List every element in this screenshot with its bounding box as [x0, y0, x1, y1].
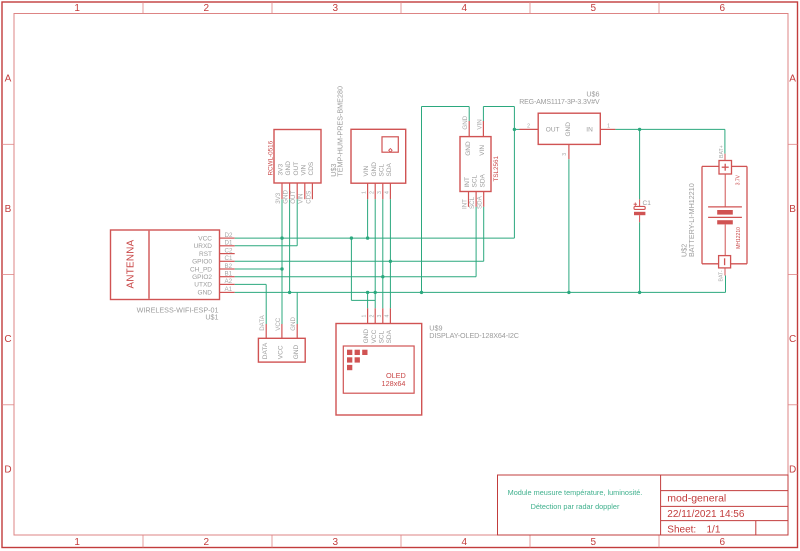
U$2 value labels — [735, 174, 742, 248]
svg-text:URXD: URXD — [194, 243, 213, 250]
U$1 pin stubs — [220, 238, 235, 292]
svg-text:3V3: 3V3 — [275, 192, 282, 204]
svg-text:A: A — [789, 74, 796, 85]
svg-text:SCL: SCL — [378, 163, 385, 176]
svg-text:GND: GND — [371, 162, 378, 177]
wire 3.3V drop to OLED VCC — [351, 238, 375, 300]
svg-text:GND: GND — [290, 317, 297, 331]
U$2 pin stubs — [724, 154, 726, 276]
svg-text:DISPLAY-OLED-128X64-I2C: DISPLAY-OLED-128X64-I2C — [429, 331, 519, 340]
svg-text:B1: B1 — [225, 271, 233, 278]
svg-text:3: 3 — [333, 537, 339, 548]
wire RCWL GND vertical — [289, 199, 291, 292]
svg-text:INT: INT — [464, 177, 471, 188]
svg-text:3V3: 3V3 — [278, 164, 285, 176]
svg-text:2: 2 — [204, 3, 210, 14]
capacitor C1 — [634, 199, 645, 222]
svg-text:VIN: VIN — [479, 145, 486, 156]
svg-text:1: 1 — [607, 123, 610, 129]
U$9 pin stubs — [368, 308, 391, 323]
svg-text:GND: GND — [285, 161, 292, 176]
wire RCWL 3V3 vertical — [281, 199, 283, 324]
U$2 cell plates — [708, 174, 742, 256]
C1 plus mark — [634, 203, 637, 206]
svg-text:GND: GND — [283, 190, 290, 204]
wire SDA vertical — [389, 199, 391, 308]
U$2 minus terminal — [719, 256, 731, 268]
3-pin sensor pin stubs — [266, 324, 297, 338]
svg-text:A2: A2 — [225, 278, 233, 285]
svg-text:1: 1 — [74, 3, 80, 14]
svg-text:D: D — [789, 464, 796, 475]
svg-text:D2: D2 — [225, 232, 233, 239]
U$2 pin net labels — [719, 145, 725, 281]
svg-text:6: 6 — [720, 537, 726, 548]
svg-text:VCC: VCC — [275, 317, 282, 331]
svg-text:GND: GND — [293, 344, 300, 359]
svg-text:1: 1 — [74, 537, 80, 548]
sensor U$3 TEMP-HUM-PRES-BME280 body — [351, 129, 406, 183]
TSL2561 pin stubs — [469, 121, 484, 207]
svg-text:DATA: DATA — [259, 314, 266, 330]
svg-text:IN: IN — [586, 127, 593, 134]
wire regulator GND down — [568, 159, 570, 292]
U$9 reference labels — [429, 323, 519, 339]
sensor TSL2561 body — [460, 137, 491, 192]
svg-text:128x64: 128x64 — [382, 379, 406, 388]
svg-text:D1: D1 — [225, 240, 233, 247]
junction dots — [280, 128, 641, 294]
title block — [498, 475, 789, 535]
svg-text:C2: C2 — [225, 247, 233, 254]
U$9 pin names — [363, 329, 393, 344]
svg-text:MH12210: MH12210 — [736, 227, 742, 249]
svg-text:A1: A1 — [225, 286, 233, 293]
svg-text:RCWL-0516: RCWL-0516 — [268, 140, 275, 175]
wire OLED GND vertical — [367, 292, 369, 308]
regulator U$6 REG-AMS1117-3P-3.3V#V body — [538, 113, 600, 144]
TSL2561 top pin names — [465, 141, 486, 156]
svg-text:TEMP-HUM-PRES-BME280: TEMP-HUM-PRES-BME280 — [335, 86, 344, 177]
wire 3.3V rail D2 — [235, 237, 515, 239]
svg-text:B2: B2 — [225, 263, 233, 270]
svg-text:3: 3 — [377, 315, 383, 318]
svg-text:22/11/2021 14:56: 22/11/2021 14:56 — [667, 509, 745, 520]
wire TSL VIN to 3.3V — [483, 107, 514, 239]
svg-text:SDA: SDA — [386, 162, 393, 176]
U$6 reference labels — [519, 90, 600, 106]
svg-text:GND: GND — [465, 141, 472, 156]
svg-text:2: 2 — [369, 315, 375, 318]
display U$9 DISPLAY-OLED-128X64-I2C body — [336, 324, 422, 416]
U$1 pin names — [190, 235, 212, 296]
U$6 pin numbers — [527, 123, 610, 156]
svg-text:SDA: SDA — [386, 329, 393, 343]
svg-text:DATA: DATA — [262, 342, 269, 359]
wire capacitor C1 verticals — [639, 129, 641, 292]
svg-text:1: 1 — [362, 191, 368, 194]
svg-text:mod-general: mod-general — [667, 493, 726, 505]
U$9 pixel pattern — [347, 350, 368, 370]
TSL2561 net labels — [461, 115, 483, 209]
svg-text:B: B — [789, 204, 796, 215]
svg-text:GPIO2: GPIO2 — [192, 274, 212, 281]
3-pin sensor pin names — [262, 342, 300, 359]
U$6 pin names — [546, 122, 593, 137]
svg-text:U$1: U$1 — [205, 313, 218, 322]
svg-text:VCC: VCC — [198, 235, 212, 242]
svg-text:SCL: SCL — [378, 330, 385, 343]
svg-text:4: 4 — [385, 315, 391, 318]
svg-text:2: 2 — [369, 191, 375, 194]
3-pin sensor net labels — [259, 314, 297, 330]
svg-text:C: C — [789, 334, 796, 345]
wire BME VIN vertical — [367, 199, 369, 238]
RCWL-0516 net labels — [275, 190, 312, 204]
svg-text:VIN: VIN — [300, 164, 307, 175]
svg-text:VIN: VIN — [363, 165, 370, 176]
svg-text:C1: C1 — [225, 255, 233, 262]
RCWL-0516 pin stubs — [282, 183, 312, 199]
svg-text:OUT: OUT — [293, 162, 300, 176]
svg-text:5: 5 — [591, 3, 597, 14]
svg-text:3.7V: 3.7V — [735, 174, 741, 185]
svg-text:6: 6 — [720, 3, 726, 14]
wire B2 to 3V3 — [235, 268, 282, 270]
svg-text:GND: GND — [462, 115, 469, 129]
U$3 reference labels — [329, 86, 345, 177]
U$6 pin stubs — [520, 129, 616, 159]
module U$1 WIRELESS-WIFI-ESP-01 body — [111, 230, 220, 300]
svg-text:C: C — [4, 334, 11, 345]
frame row labels — [4, 74, 796, 476]
svg-text:Module meusure température, lu: Module meusure température, luminosité. — [508, 488, 643, 497]
svg-text:CH_PD: CH_PD — [190, 266, 212, 273]
svg-text:2: 2 — [204, 537, 210, 548]
svg-text:Détection par radar doppler: Détection par radar doppler — [531, 502, 620, 511]
svg-text:GND: GND — [565, 122, 572, 137]
U$2 reference labels — [680, 183, 696, 257]
svg-text:2: 2 — [527, 123, 530, 129]
svg-text:1: 1 — [362, 315, 368, 318]
svg-text:B: B — [5, 204, 12, 215]
title block teal description — [508, 488, 643, 511]
svg-text:INT: INT — [461, 199, 468, 209]
wire BME GND / OLED VCC vertical — [374, 199, 376, 308]
U$3 pin stubs — [368, 183, 391, 199]
svg-text:SCL: SCL — [472, 174, 479, 187]
wire regulator OUT junction — [514, 128, 519, 130]
U$3 pin names — [363, 162, 393, 177]
svg-text:4: 4 — [385, 191, 391, 194]
U$1 reference labels — [137, 305, 219, 321]
svg-text:GND: GND — [198, 290, 213, 297]
svg-text:REG-AMS1117-3P-3.3V#V: REG-AMS1117-3P-3.3V#V — [519, 99, 600, 106]
svg-text:U$6: U$6 — [586, 90, 599, 99]
wire B1/SCL row — [235, 207, 476, 277]
svg-text:VCC: VCC — [278, 345, 285, 359]
svg-text:3: 3 — [562, 153, 568, 156]
svg-text:Sheet:: Sheet: — [667, 524, 696, 535]
svg-text:OUT: OUT — [290, 191, 297, 204]
wire sensor GND vertical — [296, 292, 298, 324]
svg-text:4: 4 — [462, 3, 468, 14]
svg-text:VIN: VIN — [476, 119, 483, 129]
svg-text:C1: C1 — [643, 200, 652, 207]
svg-text:SDA: SDA — [477, 195, 484, 209]
svg-text:4: 4 — [462, 537, 468, 548]
svg-text:CDS: CDS — [305, 191, 312, 204]
U$9 pin numbers — [362, 315, 391, 318]
svg-text:GND: GND — [363, 329, 370, 344]
U$9 OLED 128x64 label — [382, 371, 406, 388]
U$1 net labels D2..A1 — [225, 232, 233, 293]
wire SCL vertical — [382, 199, 384, 308]
wire C1/SDA row — [235, 207, 484, 261]
svg-text:BATTERY-LI-MH12210: BATTERY-LI-MH12210 — [687, 183, 696, 257]
svg-text:1/1: 1/1 — [707, 524, 721, 535]
svg-text:3: 3 — [377, 191, 383, 194]
battery U$2 BATTERY-LI-MH12210 body — [702, 166, 747, 263]
module RCWL-0516 body — [274, 130, 321, 184]
svg-text:5: 5 — [591, 537, 597, 548]
wire regulator IN to battery — [615, 129, 725, 153]
svg-text:CDS: CDS — [308, 161, 315, 175]
3-pin sensor body — [258, 338, 305, 362]
svg-text:RST: RST — [199, 251, 212, 258]
svg-text:GPIO0: GPIO0 — [192, 259, 212, 266]
U$3 pin numbers — [362, 191, 391, 194]
svg-text:VCC: VCC — [371, 329, 378, 343]
svg-text:SDA: SDA — [479, 173, 486, 187]
TSL2561 bottom pin names — [464, 173, 486, 187]
svg-text:OUT: OUT — [546, 127, 560, 134]
wire TSL GND to GND rail — [422, 107, 470, 293]
svg-text:ANTENNA: ANTENNA — [126, 239, 137, 288]
wire D1 to RCWL OUT — [235, 199, 298, 246]
U$2 plus terminal — [719, 161, 732, 175]
svg-text:BAT-: BAT- — [719, 270, 725, 281]
svg-text:UTXD: UTXD — [194, 282, 212, 289]
svg-text:TSL2561: TSL2561 — [493, 155, 500, 181]
wire A2 to sensor DATA — [235, 284, 267, 324]
svg-text:SCL: SCL — [469, 196, 476, 209]
svg-text:BAT+: BAT+ — [719, 145, 725, 158]
svg-text:VIN: VIN — [298, 193, 305, 203]
wire GND rail A1 — [235, 276, 726, 293]
svg-text:D: D — [4, 464, 11, 475]
svg-text:A: A — [5, 74, 12, 85]
svg-text:3: 3 — [333, 3, 339, 14]
RCWL-0516 pin names — [278, 161, 315, 176]
